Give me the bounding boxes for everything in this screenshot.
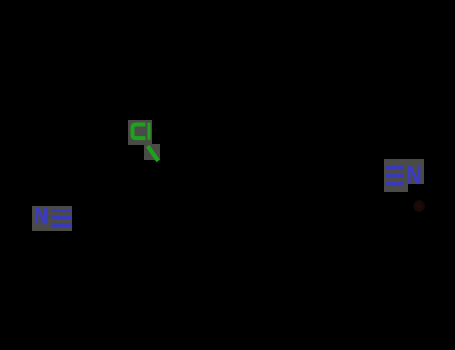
left nitrile triple bond line 1 xyxy=(52,209,73,212)
right nitrile triple bond line 2 xyxy=(385,174,404,178)
left nitrile atom label N xyxy=(34,205,48,229)
left nitrile label background box xyxy=(32,206,73,231)
carbon-chlorine bond (green half) xyxy=(140,140,166,166)
left nitrile triple bond line 3 xyxy=(52,223,73,226)
right nitrile triple bond line 1 xyxy=(385,166,404,170)
chlorine atom label Cl xyxy=(126,117,156,147)
faint watermark blob xyxy=(413,200,425,212)
chlorine label background box xyxy=(128,120,152,145)
left nitrile triple bond line 2 xyxy=(52,216,73,219)
right nitrile triple bond line 3 xyxy=(385,182,404,186)
chlorine bond background box xyxy=(144,144,159,160)
right nitrile triple bond background box xyxy=(384,159,408,193)
right nitrile label background box xyxy=(408,159,424,184)
right nitrile atom label N xyxy=(406,163,422,188)
